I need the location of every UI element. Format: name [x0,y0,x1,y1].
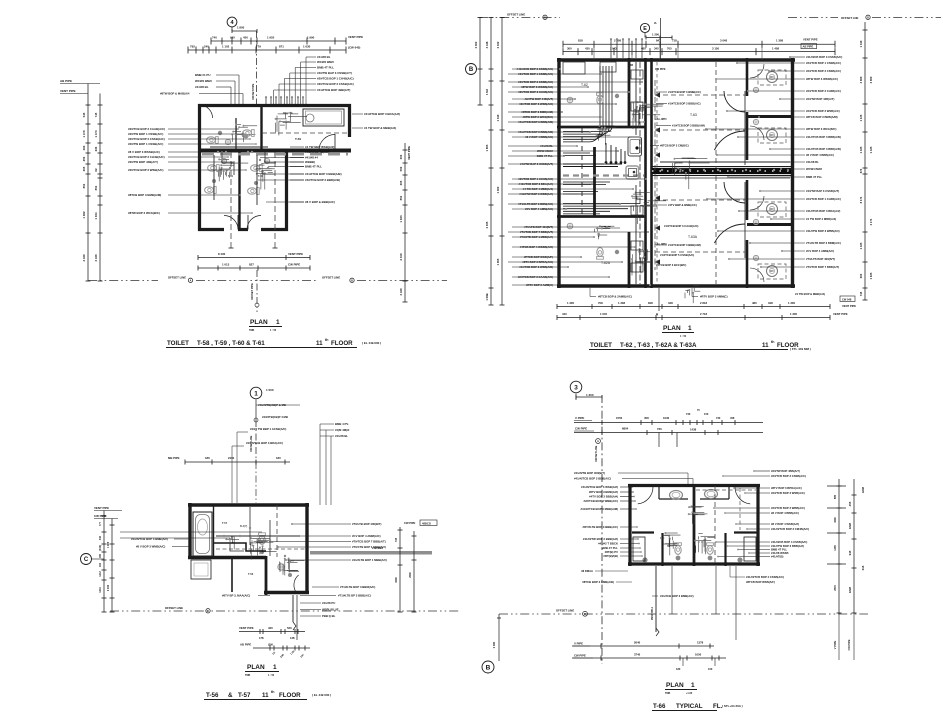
svg-text:8 430: 8 430 [218,252,226,256]
svg-text:180: 180 [276,456,281,460]
plan C: small appendix below [191,560,211,579]
svg-text:1 302: 1 302 [496,186,500,193]
plan C: interior clutter [251,537,270,539]
plan A: offset line A left [88,280,158,282]
svg-text:#L: #L [654,21,657,25]
plan B: shaft fixture boxes [628,137,642,156]
svg-text:PLAN: PLAN [666,682,684,689]
svg-text:#8 V BOP 3 WMB(A/C): #8 V BOP 3 WMB(A/C) [136,545,165,549]
svg-text:1 300: 1 300 [788,301,795,305]
plan B: outer wall right [791,58,794,288]
plan D: below-building riser lines [671,566,673,614]
plan C: right vertical dimension lines [399,527,401,612]
svg-text:1 200: 1 200 [652,33,659,37]
plan A: upper-left room door arc [200,105,213,118]
svg-text:#41/#2TCB BOP 3 BBB(A/C): #41/#2TCB BOP 3 BBB(A/C) [574,477,611,481]
svg-text:#8TCB BOP & 2AMB(A/C): #8TCB BOP & 2AMB(A/C) [598,295,632,299]
plan D: grid bubble 3 [570,381,582,393]
svg-text:BMB 4T PLL: BMB 4T PLL [317,66,334,70]
svg-text:4298: 4298 [861,486,865,493]
plan B: right rooms divider walls [747,115,793,118]
svg-text:B: B [486,664,491,671]
svg-text:1 473: 1 473 [94,130,98,137]
svg-text:OFFSET PIPE: OFFSET PIPE [252,83,255,100]
svg-text:#2/#TCB BOP 3 WBB(A/C): #2/#TCB BOP 3 WBB(A/C) [771,506,805,510]
svg-text:WCW4 BM/#: WCW4 BM/# [806,167,823,171]
svg-text:8 171: 8 171 [859,196,863,203]
svg-text:1438: 1438 [690,428,697,432]
svg-text:1 308: 1 308 [776,39,783,43]
plan B: left zone pipe comb band 2 [563,152,590,154]
svg-text:6804: 6804 [622,427,629,431]
plan B: middle room double door arcs T-63A [724,182,745,203]
svg-text:( FTL 449 MM ): ( FTL 449 MM ) [790,347,811,351]
svg-text:1: 1 [273,664,277,671]
plan A: lower-right room fixtures [251,165,263,172]
svg-text:#41/#8 BL: #41/#8 BL [335,434,348,438]
svg-text:1 082: 1 082 [82,211,86,218]
plan C: bottom wall of upper room [188,556,266,559]
svg-text:WC: WC [770,270,774,273]
svg-text:4000: 4000 [834,517,837,523]
svg-text:1 408: 1 408 [772,46,779,50]
svg-text:1219: 1219 [99,587,102,593]
svg-text:#4/#TW BAP 3 CSSB(A/T): #4/#TW BAP 3 CSSB(A/T) [317,71,352,75]
svg-text:3000: 3000 [395,577,398,583]
svg-text:1 : 50: 1 : 50 [268,674,275,677]
svg-text:T-57: T-57 [238,692,251,699]
svg-text:#41/#2TCB BOP 4 CSSB(A/C): #41/#2TCB BOP 4 CSSB(A/C) [746,575,784,579]
svg-text:TYPICAL: TYPICAL [676,703,703,710]
svg-text:VENT PIPE: VENT PIPE [94,506,109,510]
plan C: bathtub [193,512,212,556]
svg-text:13B: 13B [290,637,295,640]
plan B: left zone pipe comb band 1 with bend arcs [563,66,612,132]
svg-text:B: B [351,279,353,282]
svg-text:#2/#TCB BOP 3 WBB(A/C): #2/#TCB BOP 3 WBB(A/C) [584,499,619,503]
svg-text:LAA JMT#: LAA JMT# [655,118,667,121]
svg-text:#41/#8 WSSB: #41/#8 WSSB [771,551,788,555]
plan A: upper-right leader cascade [306,56,316,58]
plan B: left zone dashed centreline [581,128,583,216]
svg-text:LAA JMT#: LAA JMT# [655,243,667,246]
plan A: dashed centrelines lower block [230,152,232,248]
plan D: outer wall right [756,484,759,566]
svg-text:#T/#TCB BOP 7 BBB(A/T): #T/#TCB BOP 7 BBB(A/T) [806,265,839,269]
svg-text:WCW4 BM/#: WCW4 BM/# [317,60,334,64]
svg-text:1550: 1550 [616,416,623,420]
svg-text:#2/#TW BOP 4BB(A/T): #2/#TW BOP 4BB(A/T) [771,469,800,473]
svg-text:1 435: 1 435 [869,146,873,153]
svg-text:#41/#TCB BOP 3 BDA(A/#): #41/#TCB BOP 3 BDA(A/#) [364,112,400,116]
svg-text:#4/#2TB(CB)P 4 MB: #4/#2TB(CB)P 4 MB [262,415,288,419]
svg-text:BMB #1 PU: BMB #1 PU [195,73,210,77]
plan A: grey duct under mid wall [202,153,348,156]
svg-text:440: 440 [562,312,567,316]
svg-text:T-63: T-63 [690,113,697,117]
svg-text:3 438: 3 438 [399,288,403,295]
svg-text:B: B [584,613,586,616]
plan B: interior pipe clutter clusters [645,103,663,105]
svg-text:FLOOR: FLOOR [331,340,353,347]
svg-text:240: 240 [204,45,209,49]
svg-text:1 990: 1 990 [307,36,315,40]
svg-text:818: 818 [578,39,583,43]
svg-text:458: 458 [730,416,735,420]
svg-text:#4 TW BOP 4 MBB(A/4): #4 TW BOP 4 MBB(A/4) [806,217,836,221]
plan A: left leader lines [168,128,238,130]
svg-text:AB PIPE: AB PIPE [60,79,72,83]
svg-text:11: 11 [316,340,323,347]
plan B: outer wall bottom [557,284,795,287]
svg-text:#8 V BOP 3 WSSB(A/C): #8 V BOP 3 WSSB(A/C) [128,150,160,154]
svg-text:1 308: 1 308 [618,301,625,305]
svg-text:OFFSET LINE: OFFSET LINE [556,609,574,613]
plan D: basin ovals [670,491,683,500]
svg-text:A: A [597,440,599,443]
plan D: WC fixtures lower [675,543,682,555]
plan A: lower room door arcs [224,216,238,230]
svg-text:#41/#T(B): #41/#T(B) [771,555,783,559]
svg-text:827: 827 [249,263,254,267]
svg-text:730: 730 [686,412,691,416]
plan D: centre partition wall [693,484,696,566]
svg-text:230: 230 [94,146,98,151]
svg-text:#41/#TCB BOP 3 BBB(A/B): #41/#TCB BOP 3 BBB(A/B) [806,135,841,139]
svg-text:th: th [771,340,774,344]
svg-text:T-56: T-56 [248,572,254,576]
svg-text:#41/#TCB BOP 3 BDA(A/#): #41/#TCB BOP 3 BDA(A/#) [806,209,840,213]
svg-text:#41/#2TW BOP 3 BBB(A/#): #41/#2TW BOP 3 BBB(A/#) [583,537,618,541]
svg-text:#8TCB BOP 3 BMB(A/M): #8TCB BOP 3 BMB(A/M) [128,193,161,197]
plan A: outer wall left [198,104,201,231]
svg-text:1 135: 1 135 [859,114,863,121]
svg-text:CW PIPE: CW PIPE [847,639,851,650]
svg-text:520: 520 [287,626,292,630]
plan B: shaft wall vertical 1 lower [628,232,631,288]
svg-text:300: 300 [399,154,403,159]
svg-text:#4 TW BOP & MBB(A/4): #4 TW BOP & MBB(A/4) [364,126,396,130]
plan C: outer wall right [305,503,308,594]
svg-text:1: 1 [691,682,695,689]
svg-text:#8 V BOP 4 BBB(A/C): #8 V BOP 4 BBB(A/C) [771,511,799,515]
svg-text:3 150: 3 150 [712,46,719,50]
plan A: lower block bottom wall [198,228,224,231]
svg-text:th: th [271,690,274,694]
plan D: outer wall bottom [628,562,760,565]
svg-text:#1/#TCB BOP 3 CAAB(A/C): #1/#TCB BOP 3 CAAB(A/C) [664,224,699,228]
svg-text:1 034: 1 034 [94,212,98,219]
plan B: left zone pipe comb band 4 [563,181,610,183]
svg-text:1 00B: 1 00B [485,293,489,300]
svg-text:300: 300 [567,46,572,50]
plan A: outer wall top [198,104,351,107]
svg-text:3 438: 3 438 [94,254,98,261]
plan C: bath partition [213,505,215,557]
svg-text:1 340: 1 340 [496,114,500,121]
svg-text:th: th [325,338,328,342]
plan B: right rooms WC fixtures [767,72,778,83]
svg-text:VENT PIPE: VENT PIPE [60,89,76,93]
svg-text:#8TW BOP 3 WSSB(A/C): #8TW BOP 3 WSSB(A/C) [806,77,838,81]
svg-text:#2/#TCB BOP 1 CH4B(A/C): #2/#TCB BOP 1 CH4B(A/C) [806,197,841,201]
svg-text:#2/#TCB BOP 3 WSB(A/C): #2/#TCB BOP 3 WSB(A/C) [771,491,805,495]
svg-text:463: 463 [82,145,86,150]
svg-text:1412: 1412 [99,571,102,577]
svg-text:CW PIPE: CW PIPE [655,68,666,71]
svg-text:3740: 3740 [634,653,641,657]
svg-text:#8TCB BOP WSB(A/F): #8TCB BOP WSB(A/F) [746,580,775,584]
svg-text:OFFSET LNE: OFFSET LNE [841,16,859,20]
svg-text:TMB: TMB [249,329,254,332]
svg-text:740: 740 [212,36,217,40]
svg-text:#41/#2TCB BOP 3 CM4B(A/C): #41/#2TCB BOP 3 CM4B(A/C) [771,527,809,531]
plan D: interior clutter [668,545,673,547]
plan C: left vertical dimension lines [103,511,105,613]
plan B: left vertical dimension lines [479,18,481,106]
svg-text:BMB 4T PLL: BMB 4T PLL [305,165,322,169]
svg-text:1 005: 1 005 [496,258,500,265]
svg-text:#8 DMAA: #8 DMAA [581,569,593,573]
svg-text:( STL+04 30A ): ( STL+04 30A ) [722,704,743,708]
svg-text:+1:20: +1:20 [686,692,693,695]
svg-text:545: 545 [82,112,86,117]
plan D: dashed service lines [714,486,716,564]
svg-text:#CV BOP 4 AMM(A/C): #CV BOP 4 AMM(A/C) [352,534,381,538]
svg-text:1 : 50: 1 : 50 [680,335,687,338]
plan A: offset pipe centreline above plan [256,31,258,104]
plan B: left zone pipe comb band 3 with risers [563,163,622,165]
svg-text:T-56: T-56 [206,692,219,699]
svg-text:#41/#2TCB BOP 3 BMB(A/#): #41/#2TCB BOP 3 BMB(A/#) [131,537,168,541]
plan B: right rooms basins [753,87,758,92]
plan B: outer wall top [557,58,795,61]
svg-text:340: 340 [99,535,102,540]
svg-text:#2/#TCB BOP 3 WSB(A/C): #2/#TCB BOP 3 WSB(A/C) [128,168,163,172]
svg-text:OFFSET LINE: OFFSET LINE [507,13,525,17]
svg-text:1 435: 1 435 [859,242,863,249]
plan C: offset line C [110,610,460,612]
plan B: offset line top left [479,17,560,19]
svg-text:MB PIPE: MB PIPE [168,456,180,460]
svg-text:1 300: 1 300 [567,301,574,305]
svg-text:1 635: 1 635 [869,272,873,279]
svg-text:1050: 1050 [695,653,702,657]
svg-text:#T/#TCB BOP 7 BBB(A/T): #T/#TCB BOP 7 BBB(A/T) [352,540,386,544]
svg-text:PLAN: PLAN [250,319,268,326]
svg-text:854: 854 [399,195,403,200]
svg-text:1 102: 1 102 [222,45,230,49]
svg-text:VENT PIPE: VENT PIPE [239,626,254,630]
svg-text:#41/#8 BL: #41/#8 BL [317,55,331,59]
svg-text:1378: 1378 [697,641,704,645]
plan B: right room door arcs [750,64,764,78]
svg-text:#RT/#LTB BOP 3 BBB(A/C): #RT/#LTB BOP 3 BBB(A/C) [583,525,619,529]
svg-text:1: 1 [276,319,280,326]
svg-text:2 171: 2 171 [869,218,873,225]
svg-text:T-58 , T-59 , T-60 & T-61: T-58 , T-59 , T-60 & T-61 [197,340,265,347]
svg-text:#2/#TCB BOP 3 CSSB(A/C): #2/#TCB BOP 3 CSSB(A/C) [806,69,841,73]
plan B: dim drop lines into building [593,47,595,60]
svg-text:FLOOR: FLOOR [279,692,301,699]
svg-text:#41/#TCB BOP 3 BBD(A/B): #41/#TCB BOP 3 BBD(A/B) [806,147,841,151]
svg-text:VENT PIPE: VENT PIPE [842,304,856,308]
svg-text:673: 673 [859,168,863,173]
plan A: upper-left room fixtures [207,137,219,144]
svg-text:1 340: 1 340 [859,40,863,47]
svg-text:1 805: 1 805 [485,144,489,151]
svg-text:1 435: 1 435 [859,146,863,153]
plan B: corridor pipe runs [660,161,790,163]
svg-text:#2/#TCB BOP 3 CSSB(A/C): #2/#TCB BOP 3 CSSB(A/C) [128,137,165,141]
svg-text:T-66: T-66 [653,703,666,710]
svg-text:#8 V BOP & BBB(A/C): #8 V BOP & BBB(A/C) [305,200,335,204]
plan D: outer wall left [628,484,631,566]
svg-text:480: 480 [752,301,757,305]
svg-text:B-4(?): B-4(?) [240,525,247,528]
plan A: lower block right wall [285,150,288,231]
svg-text:3: 3 [574,384,578,391]
plan B: left part horizontal wall 1 [557,126,646,129]
svg-text:11: 11 [762,342,769,349]
svg-text:B: B [469,67,474,73]
svg-text:#8TW BOP 3 WCG(B/C): #8TW BOP 3 WCG(B/C) [806,127,836,131]
svg-text:AB PIPE: AB PIPE [803,45,814,49]
svg-text:TMB: TMB [245,674,250,677]
svg-text:TOILET: TOILET [167,340,189,347]
plan A: outer wall right upper [348,104,351,137]
plan B: corridor plumbing band [652,168,791,174]
svg-text:OFFSET LINE: OFFSET LINE [168,276,186,280]
svg-text:( EL 449.000 ): ( EL 449.000 ) [362,341,381,345]
svg-text:#8TW BOP & MAB(A/4: #8TW BOP & MAB(A/4 [160,92,190,96]
svg-text:#T1/#LTB BOP 3 BBM(A/C): #T1/#LTB BOP 3 BBM(A/C) [340,585,375,589]
svg-text:AB PIPE: AB PIPE [240,643,251,647]
svg-text:945: 945 [230,36,235,40]
svg-text:#4/#2 TW BBP 1 ACSB(A/C): #4/#2 TW BBP 1 ACSB(A/C) [250,427,286,431]
svg-text:305: 305 [82,166,86,171]
plan A: top-right room bathtub [303,109,344,126]
plan B: shaft blobs [635,146,638,149]
plan B: left zone fixtures [567,97,573,103]
svg-text:CW PIPE: CW PIPE [574,654,586,658]
svg-text:E: E [643,26,647,32]
svg-text:WBBB): WBBB) [305,160,315,164]
svg-text:3 060: 3 060 [869,76,873,83]
svg-text:CW PIPE: CW PIPE [404,521,416,525]
svg-text:#41/#2TCB BOP 3 WSB(A/#): #41/#2TCB BOP 3 WSB(A/#) [581,485,618,489]
svg-text:17B: 17B [259,637,264,640]
svg-text:#4TV BBP & BMB(A/C): #4TV BBP & BMB(A/C) [668,203,697,207]
svg-text:1 000: 1 000 [266,388,274,392]
plan D: offset line B horizontal [499,613,868,615]
plan C: mid leader lines long [120,531,262,533]
svg-text:#2/#TCB BOP 1 CSSB(A/C): #2/#TCB BOP 1 CSSB(A/C) [806,61,841,65]
svg-text:T-60: T-60 [258,175,264,178]
plan A: mid horizontal wall [198,149,351,153]
plan B: left zone pipe comb band 6 [563,203,640,205]
plan C: lower room left wall [265,556,268,595]
svg-text:CW PIPE: CW PIPE [288,263,300,267]
svg-text:777: 777 [99,521,102,526]
svg-text:1: 1 [688,325,692,332]
svg-text:3 060: 3 060 [859,76,863,83]
svg-text:PROP BB-1: PROP BB-1 [651,606,654,620]
svg-text:#4 TW BBP WSB(A/#): #4 TW BBP WSB(A/#) [305,145,334,149]
plan B: offset line top right [788,17,838,19]
svg-text:#41/#2 T BBCK: #41/#2 T BBCK [598,542,618,546]
svg-text:TMB: TMB [665,692,670,695]
plan A: right vertical dimension line [404,143,406,302]
svg-text:730: 730 [657,427,662,431]
svg-text:#T/#LTB BOP 400(B/T): #T/#LTB BOP 400(B/T) [352,522,381,526]
svg-text:BMB 4T PLL: BMB 4T PLL [771,548,788,552]
svg-text:458: 458 [644,416,649,420]
plan A: right leader lines mid [290,151,304,153]
svg-text:1 005: 1 005 [107,541,110,548]
svg-text:#8 V BOP 4 BBB(A/C): #8 V BOP 4 BBB(A/C) [806,153,834,157]
plan B: dashed service lines middle [655,94,745,96]
svg-text:#2/#TCB BOP 3 CSSB(A/C): #2/#TCB BOP 3 CSSB(A/C) [771,474,806,478]
svg-text:1828: 1828 [848,522,852,529]
svg-text:#8TV BP 3, MAA(A/C): #8TV BP 3, MAA(A/C) [222,594,250,598]
svg-text:500: 500 [399,166,403,171]
plan A: left vertical dimension lines [87,84,89,282]
svg-text:VENT PIPE: VENT PIPE [833,312,848,316]
svg-text:848: 848 [648,301,653,305]
svg-text:CW PIPE: CW PIPE [575,427,587,431]
plan A: offset line middle segment [196,280,318,282]
svg-text:150: 150 [704,412,709,416]
plan D: entry door arcs top [638,487,653,504]
svg-text:#RTV BOP 3 AMM(C): #RTV BOP 3 AMM(C) [700,295,728,299]
svg-text:2815: 2815 [834,585,837,591]
svg-text:1030: 1030 [663,416,670,420]
plan B: middle room double door arcs T-63 [724,91,745,112]
svg-text:180: 180 [99,553,102,558]
svg-text:#4TV BOP 3 BBB(A/#): #4TV BOP 3 BBB(A/#) [589,495,618,499]
svg-text:162: 162 [99,562,102,567]
svg-text:#4/#TCB BOP 3 BBD(A/B): #4/#TCB BOP 3 BBD(A/B) [305,178,340,182]
svg-text:1 033: 1 033 [399,215,403,222]
plan B: outer wall left [557,58,560,288]
svg-text:(5)0: (5)0 [268,643,273,647]
svg-text:BMB 4T PLL: BMB 4T PLL [806,175,823,179]
svg-text:#T1/#LTB BOP 3 BBM(A/C): #T1/#LTB BOP 3 BBM(A/C) [806,241,841,245]
svg-text:#41/#8 PU: #41/#8 PU [322,601,335,605]
plan D: outer wall top [628,484,760,487]
svg-text:#RT(B)#(B): #RT(B)#(B) [603,554,618,558]
svg-text:250: 250 [82,156,86,161]
svg-text:100: 100 [708,667,713,671]
svg-text:PLAN: PLAN [247,664,265,671]
svg-text:2400: 2400 [228,456,235,460]
svg-text:VENT PIPE: VENT PIPE [407,146,411,160]
svg-text:#41/#2CB BOP 4 CSSB(A/C): #41/#2CB BOP 4 CSSB(A/C) [771,540,807,544]
plan C: grid bubble 1 [250,387,262,399]
svg-text:1: 1 [254,390,258,397]
svg-text:TOILET: TOILET [590,342,612,349]
svg-text:450: 450 [243,36,248,40]
svg-text:420: 420 [268,626,273,630]
svg-text:#41/#TW BOP 3 WBB(A/#): #41/#TW BOP 3 WBB(A/#) [806,229,840,233]
svg-text:2 332: 2 332 [496,41,500,48]
plan C: drop pipe below building [292,595,294,622]
plan B: grid bubble E [640,23,649,32]
svg-text:738: 738 [395,537,398,542]
svg-text:1 478: 1 478 [82,130,86,137]
svg-text:1 630: 1 630 [303,45,311,49]
